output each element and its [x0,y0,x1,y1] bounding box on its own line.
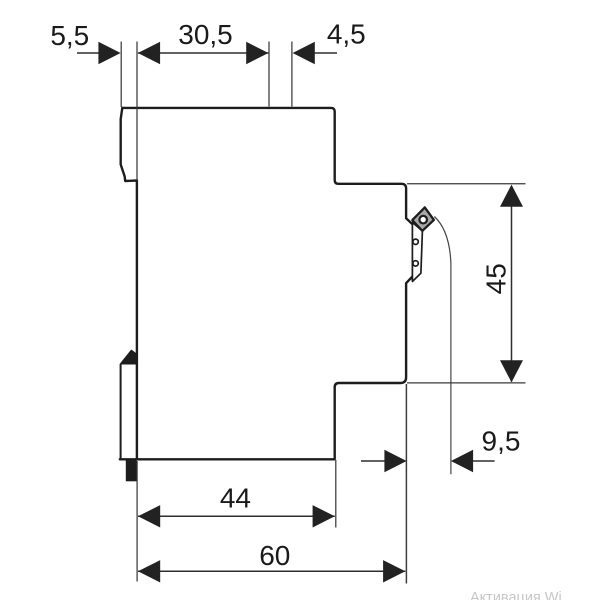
dimension 44 line and arrows [138,515,335,517]
svg-text:5,5: 5,5 [50,20,89,51]
terminal plate hole 2 [413,261,418,266]
dimension 9,5 right arrow and tail [451,450,473,472]
terminal screw hole (white circle) [419,216,427,224]
witness line x=406 (front face extended down) [405,384,407,584]
witness line y=184 (45 top reference) [407,183,526,185]
svg-text:Активация Wi: Активация Wi [470,590,562,600]
witness line y=383 (45 bottom reference) [407,382,526,384]
terminal screw head (grey diamond) [412,207,434,231]
svg-text:30,5: 30,5 [178,19,233,50]
svg-text:9,5: 9,5 [482,426,521,457]
witness line x=336 (44 right) [335,460,337,528]
dimension 30,5 line and arrows [138,52,269,54]
svg-text:44: 44 [220,483,251,514]
witness line x=137 (top) [136,42,138,181]
witness line x=121 (top left) [120,42,122,108]
wire swing curve from screw down to vertical tail [434,217,451,475]
breaker body outline: left side with top DIN-rail jaw [121,108,137,459]
breaker body outline: front face lower part, bottom step, bottom edge [120,276,413,459]
DIN clip release tab (filled) [126,459,137,481]
svg-text:4,5: 4,5 [327,19,366,50]
DIN clip outer spring line [120,364,122,460]
dimension 9,5 left arrow and tail [361,460,385,462]
witness line x=292 (top) [291,42,293,107]
dimension 5,5 line and arrow [77,52,99,54]
svg-text:60: 60 [259,540,290,571]
DIN clip pawl wedge (filled) [121,351,137,364]
witness line x=269 (top) [268,42,270,107]
breaker body outline: top edge, right step, front face upper part [122,108,412,224]
dimension 60 line and arrows [138,570,405,572]
witness line x=137 (44/60 left) [136,461,138,582]
terminal plate hole 1 [413,239,418,244]
svg-text:45: 45 [481,263,512,294]
terminal plate outline [412,223,422,282]
dimension 4,5 arrow and tail [293,42,315,64]
dimension 45 line and arrows [511,186,513,382]
